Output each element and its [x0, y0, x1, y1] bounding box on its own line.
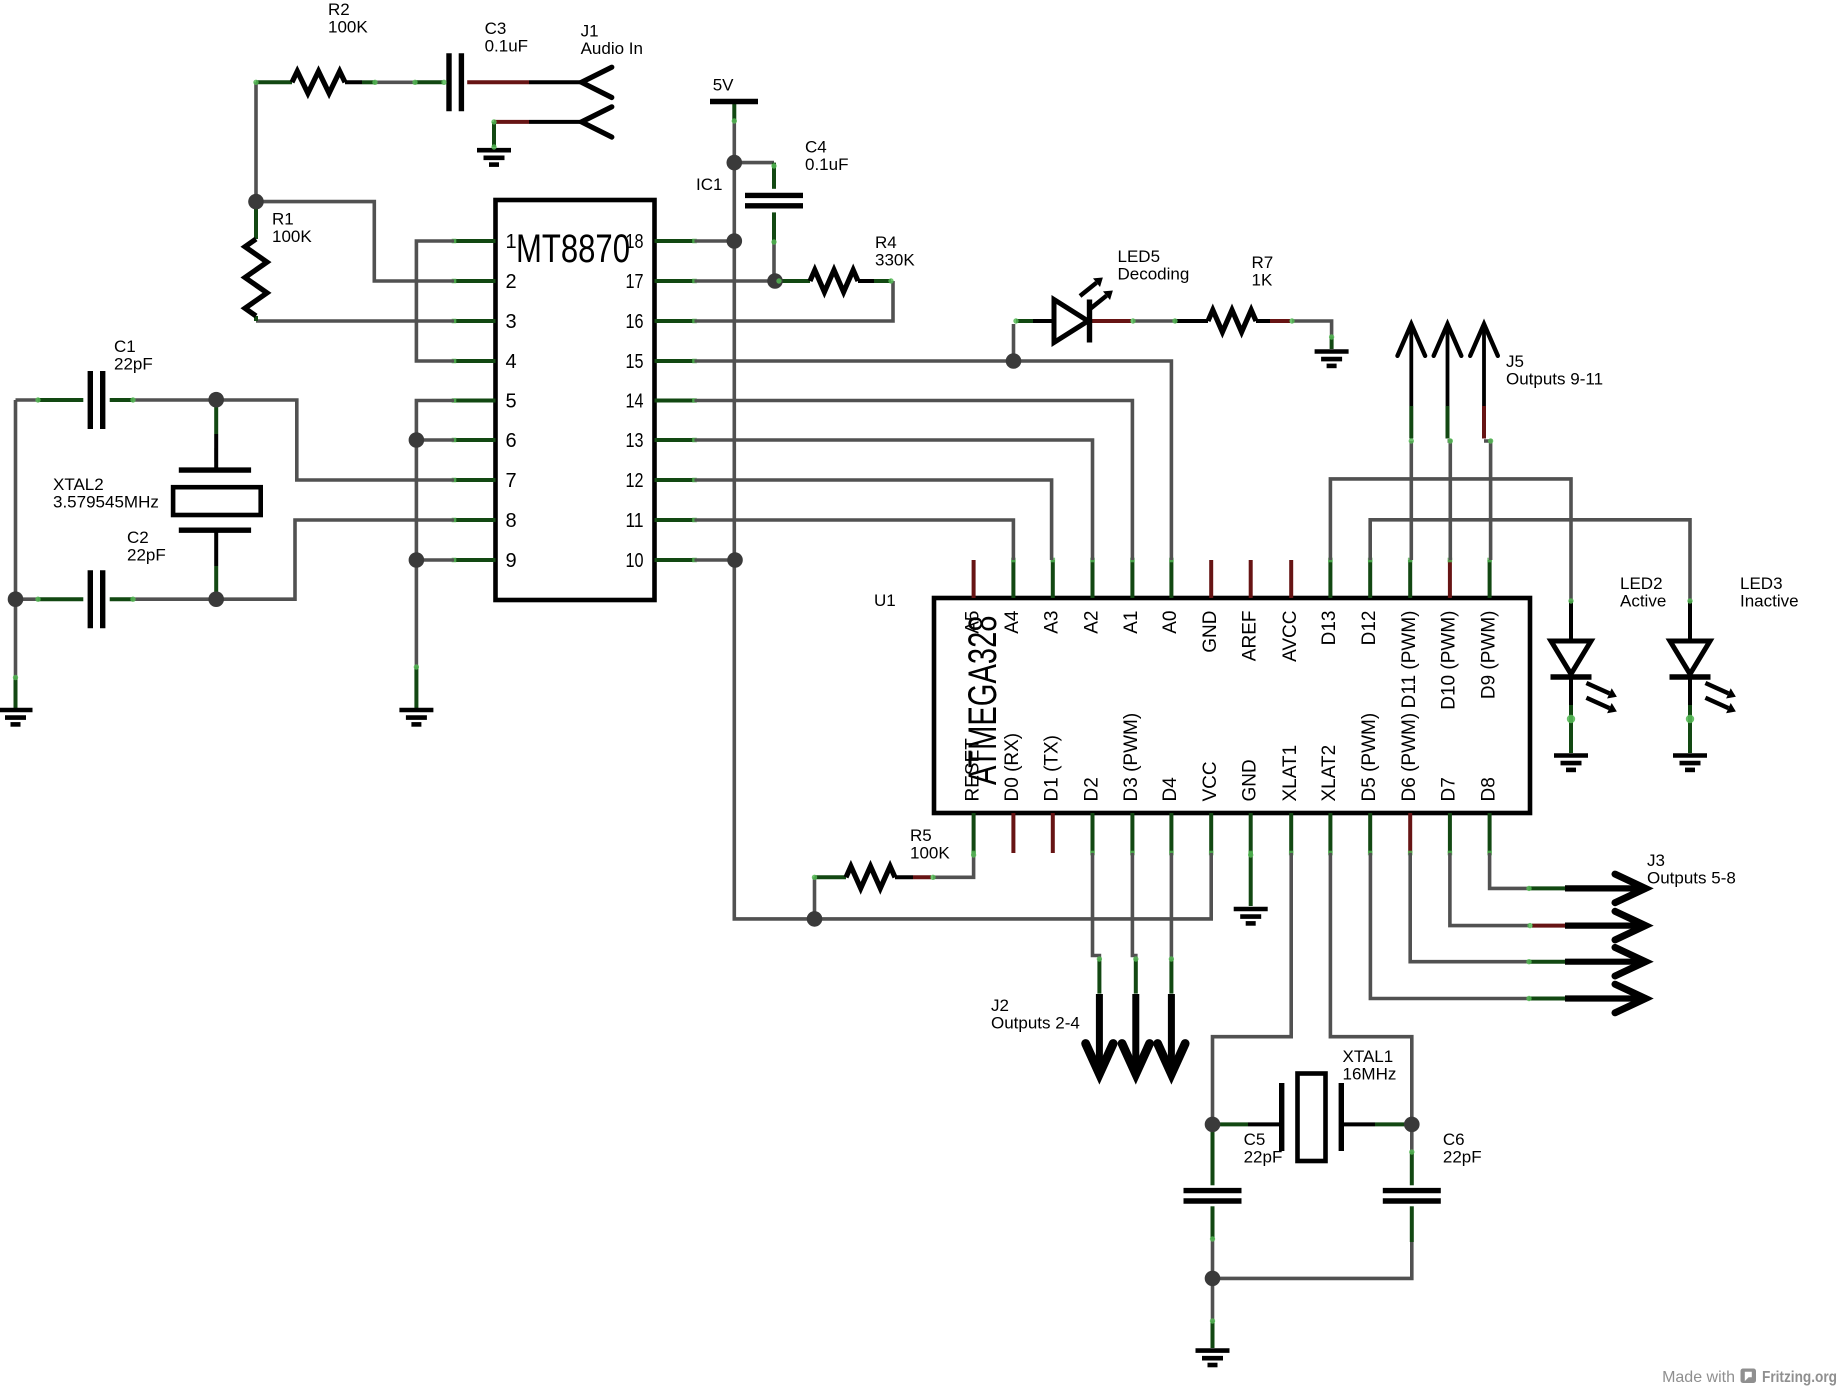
svg-text:Fritzing.org: Fritzing.org — [1762, 1369, 1837, 1386]
svg-text:D6 (PWM): D6 (PWM) — [1399, 713, 1420, 802]
svg-text:22pF: 22pF — [127, 546, 166, 565]
svg-text:GND: GND — [1200, 611, 1221, 653]
svg-text:Decoding: Decoding — [1118, 265, 1190, 284]
svg-text:330K: 330K — [875, 251, 915, 270]
svg-text:5V: 5V — [713, 76, 734, 95]
svg-text:A5: A5 — [962, 611, 983, 634]
svg-text:18: 18 — [626, 231, 644, 253]
svg-text:100K: 100K — [272, 227, 312, 246]
svg-text:100K: 100K — [910, 844, 950, 863]
svg-text:0.1uF: 0.1uF — [485, 37, 528, 56]
svg-text:8: 8 — [506, 510, 517, 532]
svg-text:15: 15 — [626, 351, 644, 373]
svg-text:5: 5 — [506, 391, 517, 413]
svg-text:13: 13 — [626, 430, 644, 452]
svg-text:D10 (PWM): D10 (PWM) — [1439, 611, 1460, 710]
svg-text:C4: C4 — [805, 138, 827, 157]
svg-text:XTAL1: XTAL1 — [1343, 1047, 1394, 1066]
svg-text:D2: D2 — [1081, 777, 1102, 801]
svg-text:RESET: RESET — [962, 738, 983, 802]
svg-text:1K: 1K — [1252, 271, 1273, 290]
svg-text:D4: D4 — [1160, 777, 1181, 802]
svg-text:A0: A0 — [1160, 611, 1181, 634]
svg-text:D5 (PWM): D5 (PWM) — [1359, 713, 1380, 802]
svg-text:Made with: Made with — [1662, 1369, 1735, 1386]
svg-text:D12: D12 — [1359, 611, 1380, 646]
svg-text:22pF: 22pF — [114, 355, 153, 374]
svg-text:D8: D8 — [1478, 777, 1499, 801]
svg-text:100K: 100K — [328, 18, 368, 37]
svg-text:J2: J2 — [991, 996, 1009, 1015]
svg-text:U1: U1 — [874, 591, 896, 610]
svg-text:LED2: LED2 — [1620, 574, 1663, 593]
svg-text:4: 4 — [506, 351, 517, 373]
svg-text:D7: D7 — [1439, 777, 1460, 801]
svg-text:6: 6 — [506, 430, 517, 452]
svg-text:J3: J3 — [1647, 851, 1665, 870]
svg-text:A3: A3 — [1042, 611, 1063, 634]
svg-text:D13: D13 — [1319, 611, 1340, 646]
svg-text:16: 16 — [626, 311, 644, 333]
svg-text:22pF: 22pF — [1244, 1147, 1283, 1166]
svg-text:Outputs 9-11: Outputs 9-11 — [1506, 370, 1603, 389]
svg-text:MT8870: MT8870 — [516, 227, 630, 271]
svg-text:C3: C3 — [485, 19, 507, 38]
svg-text:R7: R7 — [1252, 253, 1274, 272]
svg-text:AREF: AREF — [1240, 611, 1261, 662]
svg-text:0.1uF: 0.1uF — [805, 155, 848, 174]
svg-text:R1: R1 — [272, 209, 294, 228]
svg-text:14: 14 — [626, 391, 644, 413]
svg-text:C2: C2 — [127, 528, 149, 547]
svg-text:Outputs 2-4: Outputs 2-4 — [991, 1014, 1080, 1033]
svg-text:7: 7 — [506, 470, 517, 492]
svg-text:22pF: 22pF — [1443, 1147, 1482, 1166]
svg-text:A2: A2 — [1081, 611, 1102, 634]
svg-text:J1: J1 — [581, 22, 599, 41]
svg-text:D11 (PWM): D11 (PWM) — [1399, 611, 1420, 709]
svg-text:17: 17 — [626, 271, 644, 293]
svg-text:XTAL2: XTAL2 — [53, 475, 104, 494]
svg-text:R2: R2 — [328, 0, 350, 19]
svg-text:LED5: LED5 — [1118, 247, 1161, 266]
svg-text:2: 2 — [506, 271, 517, 293]
svg-text:3.579545MHz: 3.579545MHz — [53, 492, 159, 511]
svg-text:3: 3 — [506, 311, 517, 333]
svg-text:XLAT2: XLAT2 — [1319, 745, 1340, 802]
svg-text:LED3: LED3 — [1740, 574, 1783, 593]
svg-text:R4: R4 — [875, 233, 897, 252]
svg-text:AVCC: AVCC — [1280, 611, 1301, 662]
svg-text:16MHz: 16MHz — [1343, 1065, 1397, 1084]
svg-text:Inactive: Inactive — [1740, 592, 1799, 611]
svg-text:C6: C6 — [1443, 1130, 1465, 1149]
svg-text:J5: J5 — [1506, 352, 1524, 371]
svg-text:1: 1 — [506, 231, 517, 253]
svg-text:11: 11 — [626, 510, 644, 532]
svg-text:10: 10 — [626, 550, 644, 572]
svg-text:D0 (RX): D0 (RX) — [1002, 733, 1023, 802]
svg-text:D9 (PWM): D9 (PWM) — [1478, 611, 1499, 700]
svg-text:Audio In: Audio In — [581, 39, 643, 58]
svg-text:GND: GND — [1240, 759, 1261, 801]
svg-text:C1: C1 — [114, 337, 136, 356]
svg-text:XLAT1: XLAT1 — [1280, 745, 1301, 802]
svg-text:A4: A4 — [1002, 610, 1023, 634]
svg-text:12: 12 — [626, 470, 644, 492]
svg-text:Active: Active — [1620, 592, 1666, 611]
svg-text:9: 9 — [506, 550, 517, 572]
svg-text:D1 (TX): D1 (TX) — [1042, 735, 1063, 802]
svg-text:A1: A1 — [1121, 611, 1142, 634]
svg-text:D3 (PWM): D3 (PWM) — [1121, 713, 1142, 802]
svg-text:VCC: VCC — [1200, 761, 1221, 801]
svg-text:C5: C5 — [1244, 1130, 1266, 1149]
svg-text:R5: R5 — [910, 826, 932, 845]
svg-text:Outputs 5-8: Outputs 5-8 — [1647, 869, 1736, 888]
svg-text:IC1: IC1 — [696, 175, 722, 194]
